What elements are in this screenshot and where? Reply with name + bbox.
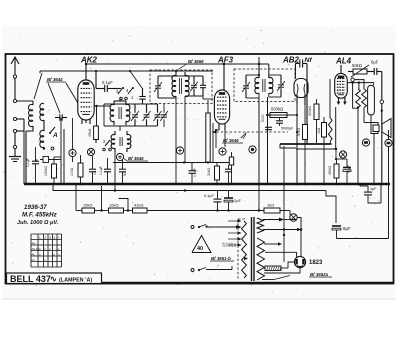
resistor 50k AB2 <box>297 120 308 184</box>
connector socket right <box>385 130 392 239</box>
svg-text:Bf 3645: Bf 3645 <box>128 156 144 161</box>
IF2 core <box>263 79 265 92</box>
wire IF1 down right <box>184 103 186 163</box>
wire IF1 down left <box>175 103 177 184</box>
marker a1 <box>67 118 76 163</box>
svg-text:BELL 437: BELL 437 <box>10 274 51 284</box>
resistor 1k bias <box>317 117 327 184</box>
wire y144 heavy <box>280 144 332 148</box>
svg-text:(LAMPEN ’A): (LAMPEN ’A) <box>59 277 92 283</box>
IF1 primary coil <box>172 70 177 97</box>
IF1 trimmer left <box>154 76 162 98</box>
svg-text:0,1μF: 0,1μF <box>204 194 214 198</box>
wire x64 vertical <box>63 129 65 184</box>
svg-text:45kΩ: 45kΩ <box>88 128 92 137</box>
wire AB2 top <box>295 63 299 78</box>
title text <box>10 274 92 284</box>
connector socket left <box>362 139 369 146</box>
svg-text:M.F. 455kHz: M.F. 455kHz <box>22 212 58 219</box>
osc coil lower pair <box>111 131 131 152</box>
hv arrow <box>264 242 282 246</box>
svg-text:8μF: 8μF <box>343 226 351 231</box>
antenna <box>11 57 19 103</box>
capacitor AL4 top <box>371 60 382 76</box>
osc switch 2 <box>103 139 112 151</box>
svg-text:110: 110 <box>233 242 237 247</box>
wire right frame drop <box>380 184 382 203</box>
wire top bus y71 <box>40 71 213 73</box>
valve socket table <box>31 234 62 267</box>
label 1823 <box>309 260 323 266</box>
wire heater drop <box>283 184 285 236</box>
secondary heater winding <box>257 218 264 233</box>
IF2 trimmer right <box>269 75 285 97</box>
svg-text:Bf 3644: Bf 3644 <box>47 77 63 82</box>
wire switch to osc <box>117 70 142 89</box>
svg-text:150kΩ: 150kΩ <box>44 166 48 176</box>
resistor 15k <box>82 203 95 214</box>
label Bf 3644 <box>46 77 66 82</box>
transformer primary <box>242 221 247 278</box>
svg-text:40: 40 <box>197 246 203 252</box>
svg-text:0,1μF: 0,1μF <box>102 80 113 85</box>
label Bf 3651-b <box>210 256 248 261</box>
wire x284 long <box>284 146 288 262</box>
marker b3 <box>249 146 256 153</box>
tube AL4 <box>335 73 348 98</box>
winding small <box>329 118 333 144</box>
pot wiper contact <box>351 78 358 108</box>
coil L1 antenna primary <box>29 104 33 126</box>
svg-text:AK: AK <box>32 241 36 245</box>
coil L3 wave band <box>40 124 44 148</box>
output winding 2 <box>362 89 367 108</box>
capacitor 0.1 c <box>99 158 111 183</box>
svg-text:AL4: AL4 <box>335 57 352 66</box>
label Bf 3655 <box>178 59 208 70</box>
label Bf 3652a <box>309 272 332 277</box>
mark heater right <box>335 107 347 158</box>
svg-text:15kΩ: 15kΩ <box>83 203 92 208</box>
border frame <box>6 54 394 284</box>
capacitor 2uF rail <box>224 191 242 211</box>
svg-text:1823: 1823 <box>309 260 323 266</box>
svg-text:5000pF: 5000pF <box>281 127 294 131</box>
rectifier wires <box>264 252 300 273</box>
wire bottom right <box>337 238 389 240</box>
svg-text:+: + <box>58 236 60 240</box>
svg-text:4: 4 <box>54 236 56 240</box>
svg-text:0,1μF: 0,1μF <box>99 166 103 175</box>
tube AF3 pins <box>219 124 225 131</box>
capacitor 1uF right <box>360 184 381 203</box>
capacitor 100pF <box>276 118 283 126</box>
svg-text:1μF: 1μF <box>370 187 377 191</box>
resistor 1k dial <box>264 203 290 214</box>
capacitor 0.1 rail <box>204 191 222 211</box>
switch blade lower <box>262 276 290 280</box>
wire top grid bus y64 <box>86 57 269 75</box>
svg-text:50kΩ: 50kΩ <box>352 63 362 68</box>
capacitor 0.1 a <box>26 147 39 183</box>
IF transformer 2 box <box>234 69 295 102</box>
band switch contacts 3 4 <box>116 87 134 100</box>
svg-text:1936-37: 1936-37 <box>24 204 47 211</box>
svg-text:50μF: 50μF <box>347 165 351 173</box>
svg-text:∿: ∿ <box>50 275 57 284</box>
capacitor 50uF <box>337 159 352 184</box>
capacitor f <box>225 165 232 183</box>
ground <box>9 153 21 162</box>
volume potentiometer <box>206 100 210 162</box>
capacitor mid e <box>189 163 198 184</box>
tube AK2 <box>78 80 94 120</box>
wire y149 <box>296 148 337 160</box>
wire AL4 anode <box>347 81 373 85</box>
MF text <box>22 212 58 219</box>
IF1 secondary coil <box>185 72 189 97</box>
resistor 300k <box>308 99 319 143</box>
output choke <box>368 85 375 115</box>
IF2 trimmer left <box>242 75 250 98</box>
band switch A <box>43 127 58 150</box>
label AF3 <box>217 56 234 65</box>
marker b1 <box>176 147 183 154</box>
IF1 cap right2 <box>200 76 206 96</box>
capacitor 0.1 b <box>89 156 97 183</box>
svg-text:100Ω: 100Ω <box>70 167 74 176</box>
wire bus to divider <box>76 184 82 211</box>
svg-text:3: 3 <box>49 236 51 240</box>
rail y190 <box>53 186 336 224</box>
svg-text:5000: 5000 <box>261 114 265 122</box>
svg-text:A: A <box>52 132 58 139</box>
svg-text:Bf 3646: Bf 3646 <box>223 138 239 143</box>
IF2 internal wires <box>246 74 281 184</box>
transformer box dashed <box>238 219 247 280</box>
capacitor Nf <box>300 57 313 144</box>
wire x297 lamp <box>0 0 1 1</box>
tube AF3 <box>214 90 229 124</box>
osc trimmer 1 <box>131 104 139 126</box>
svg-text:0,1μF: 0,1μF <box>193 168 197 177</box>
svg-text:0,1: 0,1 <box>93 170 97 175</box>
svg-text:30kΩ: 30kΩ <box>207 168 211 176</box>
resistor 45k AK2 cathode <box>88 126 98 143</box>
svg-text:0,1μF: 0,1μF <box>26 158 30 167</box>
IF1 trimmer right <box>190 76 198 96</box>
label AB2 <box>282 56 300 65</box>
IF2 primary coil <box>255 64 259 94</box>
wire y163 rail <box>113 161 229 163</box>
resistor 10k <box>109 203 124 214</box>
svg-text:Bf 3651-b: Bf 3651-b <box>211 256 231 261</box>
wire AF3 pot <box>212 123 214 163</box>
resistor 500k <box>266 107 291 118</box>
wire antenna to coil <box>17 101 34 105</box>
primary tap labels <box>222 242 238 247</box>
speaker coil wires <box>373 134 375 185</box>
tube AL4 heater pins <box>337 97 347 105</box>
svg-text:500kΩ: 500kΩ <box>271 107 283 112</box>
capacitor 0.05 <box>261 114 294 130</box>
wire AK2 anode to osc coil <box>94 105 111 126</box>
resistor 30k det <box>207 163 220 184</box>
IF transformer 1 box <box>150 70 212 104</box>
rectifier tube 1823 <box>294 252 305 267</box>
svg-text:Juh. 1000 Ω μV.: Juh. 1000 Ω μV. <box>17 220 59 226</box>
padder capacitor <box>55 114 67 121</box>
capacitor 50 d <box>119 160 127 183</box>
osc section wires <box>104 104 158 131</box>
svg-text:1kΩ: 1kΩ <box>267 203 274 208</box>
resistor 50k variable <box>348 63 371 77</box>
wire divider b <box>119 199 133 212</box>
resistor 150k <box>44 118 61 185</box>
paper speckle <box>3 27 395 296</box>
rect filament resistor <box>263 266 288 271</box>
svg-text:41kΩ: 41kΩ <box>134 203 143 208</box>
resistor small det <box>229 152 233 184</box>
svg-text:50: 50 <box>123 172 127 176</box>
mains switch lower <box>191 266 232 272</box>
svg-text:AL: AL <box>32 252 36 256</box>
svg-text:1: 1 <box>39 236 41 240</box>
IF1 internal wires <box>158 76 203 103</box>
fuse triangle 40 <box>192 236 211 253</box>
label AK2 <box>80 56 98 65</box>
osc coil upper pair <box>110 98 130 125</box>
transformer core <box>252 217 255 281</box>
wire AF3 top <box>223 63 225 90</box>
wire coil L1 bottom <box>26 126 33 183</box>
wire AK2 grid cap <box>85 63 87 80</box>
osc core lower <box>120 137 122 146</box>
svg-text:2: 2 <box>45 236 47 240</box>
chassis bus y184 <box>24 183 390 186</box>
wire x115 down <box>114 152 116 191</box>
AB2 pin wires <box>266 105 305 184</box>
resistor 41k <box>133 203 148 214</box>
svg-text:10kΩ: 10kΩ <box>109 203 118 208</box>
capacitor 8uF <box>332 223 351 239</box>
heater arrow 2 <box>263 228 301 232</box>
marker a2 <box>87 148 94 155</box>
svg-text:2μF: 2μF <box>234 198 242 203</box>
switch 3 wafer <box>35 157 61 164</box>
osc trimmer 2 <box>143 104 151 126</box>
resistor 450 <box>328 159 339 184</box>
wire divider a <box>95 186 109 212</box>
svg-text:Bf 3655: Bf 3655 <box>188 59 204 64</box>
speaker <box>371 119 391 138</box>
svg-text:6μF: 6μF <box>371 60 379 65</box>
svg-text:450Ω: 450Ω <box>328 166 332 175</box>
tube AB2 <box>294 79 308 106</box>
wire AL4 right vertical <box>380 72 384 185</box>
wire divider c <box>147 184 264 212</box>
tuning trimmer AF3 input <box>160 104 168 127</box>
resistor 100 <box>70 155 83 183</box>
IF2 secondary coil <box>269 75 273 94</box>
label AL4 <box>335 57 352 66</box>
title box <box>7 273 102 284</box>
marker b2 <box>219 148 226 155</box>
capacitor osc coupling <box>139 88 146 104</box>
sensitivity text <box>17 220 59 226</box>
svg-text:Gl: Gl <box>32 258 35 262</box>
marker a3 <box>116 153 148 161</box>
output winding 1 <box>356 89 361 108</box>
secondary hv winding <box>257 238 265 280</box>
screen grid drop <box>329 79 331 118</box>
IF1 core <box>179 78 181 94</box>
osc core upper <box>119 107 121 119</box>
dial lamp <box>290 211 303 257</box>
bus riser left <box>23 131 25 184</box>
svg-text:Bf 3652a: Bf 3652a <box>310 272 329 277</box>
label Bf 3646 <box>222 134 246 143</box>
coil L2 antenna secondary <box>40 103 44 124</box>
pointer line Bf3644 to tuning <box>34 73 60 113</box>
wire zig1 stem <box>358 83 360 89</box>
year text <box>24 204 47 211</box>
osc trimmer 3 <box>154 104 162 126</box>
mains switch upper <box>191 225 240 229</box>
heater arrow 1 <box>263 218 297 222</box>
svg-text:300kΩ: 300kΩ <box>308 106 312 116</box>
capacitor 0.1uF AK2 grid <box>95 70 117 92</box>
tube AK2 pins <box>82 120 90 125</box>
antenna terminal strip <box>13 117 24 153</box>
svg-text:AF3: AF3 <box>217 56 234 65</box>
svg-text:AK2: AK2 <box>80 56 98 65</box>
wire wiper to winding <box>354 80 364 89</box>
wire zig bottoms <box>357 106 371 184</box>
primary taps <box>228 219 242 247</box>
osc pointer diagonal <box>66 83 88 120</box>
AVC dashed line <box>212 131 288 139</box>
svg-text:1kΩ: 1kΩ <box>317 127 321 134</box>
wire AF3 cathode <box>215 129 225 148</box>
wire IF1 to AF3 grid <box>203 96 213 99</box>
wire AL4 grid <box>340 65 342 73</box>
